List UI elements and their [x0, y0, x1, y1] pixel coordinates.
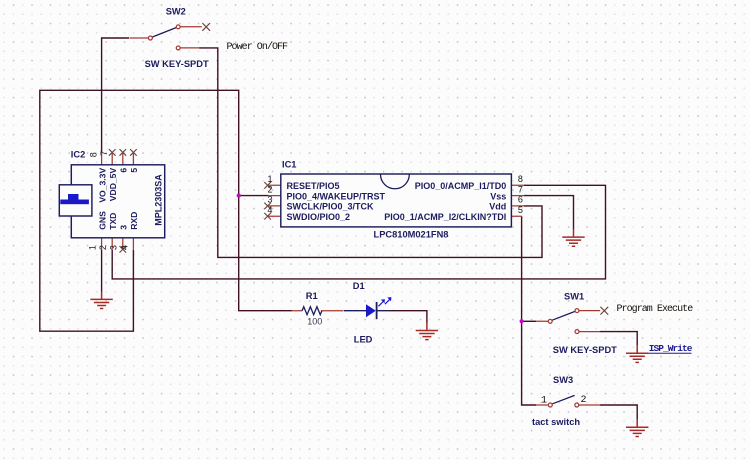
junction node at SW1 [520, 319, 524, 323]
svg-text:Power On/OFF: Power On/OFF [227, 41, 289, 53]
svg-text:SWCLK/PIO0_3/TCK: SWCLK/PIO0_3/TCK [287, 202, 375, 212]
switch SW2 [130, 7, 211, 69]
svg-text:IC2: IC2 [71, 150, 85, 160]
no-connect X pin5 [130, 149, 137, 156]
svg-text:LED: LED [354, 335, 373, 345]
svg-text:6: 6 [119, 168, 129, 173]
svg-text:3: 3 [119, 225, 129, 230]
wire junction to SW1 pole [522, 320, 536, 322]
svg-text:4: 4 [267, 205, 272, 215]
svg-text:VDD_5V: VDD_5V [108, 168, 118, 202]
wire TXD: IC2 pin2 to IC1 pin8 [112, 185, 605, 279]
wire IC1 Vss pin7 to ground [524, 196, 574, 230]
svg-text:Vss: Vss [490, 191, 506, 201]
switch SW1 [536, 291, 617, 355]
svg-text:RESET/PIO5: RESET/PIO5 [287, 181, 340, 191]
body [281, 174, 512, 227]
IC IC1 LPC810M021FN8 [264, 159, 523, 239]
svg-text:SW2: SW2 [166, 7, 186, 17]
svg-text:2: 2 [98, 245, 108, 250]
notch [381, 174, 410, 188]
pin stubs left [268, 185, 281, 216]
svg-text:8: 8 [88, 152, 98, 157]
svg-text:SWDIO/PIO0_2: SWDIO/PIO0_2 [287, 212, 351, 222]
svg-text:2: 2 [267, 184, 272, 194]
no-connect X pin3 bottom [120, 246, 127, 253]
annotation Power On/OFF [227, 41, 289, 53]
LED D1 [344, 281, 391, 345]
svg-text:7: 7 [518, 184, 523, 194]
svg-text:VO_3.3V: VO_3.3V [97, 168, 107, 203]
no-connect X pin6 [120, 149, 127, 156]
svg-text:PIO0_4/WAKEUP/TRST: PIO0_4/WAKEUP/TRST [287, 191, 386, 201]
pin stubs right [511, 185, 523, 216]
svg-text:1: 1 [88, 245, 98, 250]
svg-text:SW KEY-SPDT: SW KEY-SPDT [145, 59, 209, 69]
no-connect X pin3 [264, 203, 271, 210]
junction node at IC1 pin2 [237, 194, 241, 198]
wire SW2 pole to IC2 pin 8 [102, 38, 129, 152]
wire LED cathode to ground [390, 311, 427, 323]
wire SW1 lower throw to ground [600, 332, 637, 346]
svg-text:PIO0_0/ACMP_I1/TD0: PIO0_0/ACMP_I1/TD0 [415, 181, 507, 191]
svg-text:3: 3 [109, 245, 119, 250]
svg-text:1: 1 [267, 174, 272, 184]
svg-text:PIO0_1/ACMP_I2/CLKIN?TDI: PIO0_1/ACMP_I2/CLKIN?TDI [384, 212, 506, 222]
resistor R1 [292, 291, 344, 327]
svg-text:R1: R1 [306, 291, 318, 301]
svg-text:RXD: RXD [129, 212, 139, 230]
svg-text:Program Execute: Program Execute [617, 304, 694, 315]
no-connect X pin4 [264, 213, 271, 220]
pin stubs bottom [102, 238, 134, 250]
wire branch to IC1 pin 2 [239, 195, 269, 197]
svg-text:3: 3 [267, 195, 272, 205]
pin stubs top [102, 152, 134, 165]
annotation Program Execute [617, 304, 694, 315]
svg-text:Vdd: Vdd [489, 202, 506, 212]
switch SW3 [532, 375, 600, 427]
svg-text:MPL2303SA: MPL2303SA [154, 174, 164, 226]
IC IC2 MPL2303SA [59, 149, 164, 253]
svg-text:LPC810M021FN8: LPC810M021FN8 [374, 229, 449, 239]
wire RXD loop: IC2 pin4 to IC1 pin2 and R1 [40, 90, 292, 331]
wire IC1 pin5 to SW1 and SW3 [522, 216, 536, 405]
ground SW1 ISP [626, 345, 648, 362]
svg-text:ISP_Write: ISP_Write [649, 343, 693, 354]
svg-text:IC1: IC1 [282, 159, 296, 169]
svg-text:GNS: GNS [97, 211, 107, 230]
svg-text:SW1: SW1 [564, 291, 584, 301]
USB connector sub-box [59, 185, 92, 216]
svg-text:4: 4 [119, 245, 129, 250]
no-connect X pin1 [264, 182, 271, 189]
ground SW3 [626, 419, 648, 436]
ground IC1 Vss [562, 229, 584, 246]
wire SW3 pin2 to ground [600, 405, 637, 420]
svg-text:D1: D1 [353, 281, 365, 291]
no-connect X pin7 [109, 149, 116, 156]
wire SW2 lower throw to IC1 Vdd pin 6 [199, 48, 542, 258]
ground LED cathode [416, 323, 438, 340]
ground IC2 pin1 [90, 291, 112, 308]
svg-text:tact switch: tact switch [532, 417, 580, 427]
svg-text:SW KEY-SPDT: SW KEY-SPDT [553, 345, 617, 355]
svg-text:5: 5 [518, 205, 523, 215]
body [71, 165, 164, 238]
USB plug glyph [60, 200, 89, 205]
svg-text:5: 5 [129, 168, 139, 173]
svg-text:TXD: TXD [108, 213, 118, 230]
svg-text:7: 7 [99, 151, 109, 156]
wire IC2 pin1 to ground [101, 250, 103, 292]
net label ISP_Write [648, 343, 692, 354]
svg-text:8: 8 [518, 174, 523, 184]
svg-text:100: 100 [307, 317, 322, 327]
svg-text:6: 6 [518, 195, 523, 205]
svg-text:SW3: SW3 [553, 375, 573, 385]
